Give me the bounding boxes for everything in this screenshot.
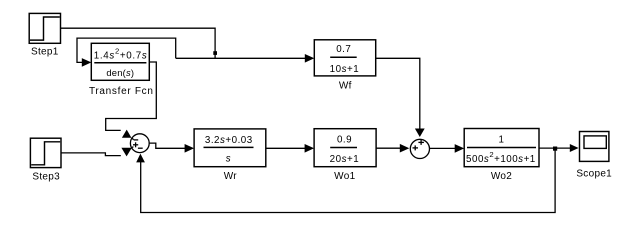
svg-text:0.9: 0.9 bbox=[337, 134, 352, 145]
arrowhead into Wo1 bbox=[305, 144, 315, 153]
arrowhead into Wo2 bbox=[455, 144, 465, 153]
junction dot feedback branch bbox=[553, 147, 557, 151]
transfer function block Transfer Fcn bbox=[89, 43, 154, 97]
svg-text:0.7: 0.7 bbox=[336, 44, 351, 55]
wire feedback from Wo2 output down, left, and up to sum1 bbox=[141, 149, 555, 213]
wire Transfer Fcn output down and around to sum1 bbox=[106, 62, 157, 130]
arrowhead into Transfer Fcn bbox=[82, 58, 92, 67]
svg-text:3.2s+0.03: 3.2s+0.03 bbox=[205, 135, 253, 146]
svg-text:Wo1: Wo1 bbox=[334, 171, 355, 182]
svg-text:Step1: Step1 bbox=[31, 47, 59, 58]
sign plus (Wf input) bbox=[418, 141, 424, 143]
svg-text:den(s): den(s) bbox=[106, 67, 134, 78]
sign minus (Transfer Fcn input) bbox=[134, 139, 139, 141]
transfer function block Wo1 bbox=[314, 129, 376, 182]
sign minus (feedback input) bbox=[138, 147, 143, 149]
transfer function block Wf bbox=[314, 40, 375, 92]
step source Step3 bbox=[30, 138, 61, 182]
wire Wo2 output to Scope1 bbox=[539, 147, 570, 149]
scope block Scope1 bbox=[576, 132, 612, 180]
svg-text:Scope1: Scope1 bbox=[576, 169, 612, 180]
wire Wf output down to sum2 bbox=[376, 58, 420, 129]
step source Step1 bbox=[29, 13, 60, 57]
wire sum2 output to Wo2 bbox=[430, 147, 456, 149]
wire Step3 output to sum1 bbox=[61, 153, 121, 156]
wire Wr output to Wo1 bbox=[266, 147, 306, 149]
svg-text:20s+1: 20s+1 bbox=[330, 154, 359, 165]
arrowhead Wo1 into sum2 bbox=[400, 144, 410, 153]
wire sum1 output to Wr bbox=[149, 143, 186, 148]
transfer function block Wo2 bbox=[464, 129, 539, 182]
arrowhead into Scope1 bbox=[570, 144, 579, 152]
svg-text:Transfer Fcn: Transfer Fcn bbox=[89, 86, 154, 97]
arrowhead feedback into sum1 (up) bbox=[136, 154, 145, 163]
summing junction sum1 bbox=[130, 134, 149, 153]
svg-text:Step3: Step3 bbox=[32, 172, 60, 183]
svg-text:Wo2: Wo2 bbox=[491, 171, 512, 182]
arrowhead Transfer Fcn into sum1 (diagonal) bbox=[122, 130, 131, 138]
sign plus (Step3 input) bbox=[133, 144, 138, 146]
arrowhead Step3 into sum1 (diagonal) bbox=[121, 148, 131, 157]
junction dot on Step1 branch bbox=[213, 51, 217, 55]
svg-text:1: 1 bbox=[499, 134, 505, 145]
svg-text:Wf: Wf bbox=[339, 80, 352, 91]
wire branch to Transfer Fcn input bbox=[77, 38, 176, 62]
sign plus (Wo1 input) bbox=[413, 147, 419, 149]
wire main horizontal to Wf bbox=[176, 57, 306, 59]
arrowhead into Wr bbox=[185, 144, 195, 153]
arrowhead into Wf bbox=[305, 54, 315, 63]
svg-text:Wr: Wr bbox=[224, 171, 238, 182]
arrowhead Wf into sum2 (down) bbox=[415, 129, 425, 138]
transfer function block Wr bbox=[194, 129, 266, 182]
wire Wo1 output to sum2 bbox=[376, 147, 401, 149]
svg-text:s: s bbox=[226, 154, 231, 165]
wire Step1 output to junction bbox=[61, 28, 216, 58]
svg-text:10s+1: 10s+1 bbox=[330, 64, 359, 75]
summing junction sum2 bbox=[410, 139, 429, 158]
